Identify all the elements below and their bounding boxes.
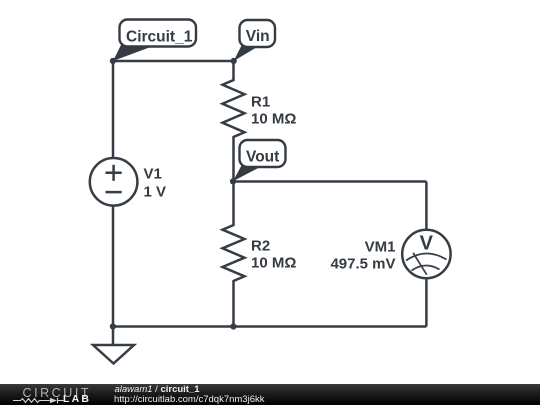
logo CIRCUIT word (23, 387, 92, 400)
wire left branch lower (112, 206, 115, 327)
node Circuit_1 callout (113, 20, 196, 62)
junction bottom-middle (230, 323, 236, 329)
svg-text:Circuit_1: Circuit_1 (126, 29, 193, 46)
footer text line 2 (114, 395, 264, 405)
wire right branch lower (425, 278, 428, 326)
junction node Vout (230, 178, 236, 184)
junction node Vin (231, 58, 237, 64)
node Vin callout (234, 20, 275, 61)
wire top rail (113, 60, 234, 63)
wire ground stub (112, 327, 115, 346)
wire Vout rail (234, 180, 427, 183)
svg-text:R1: R1 (251, 94, 270, 111)
ground (93, 345, 134, 364)
svg-text:497.5 mV: 497.5 mV (330, 256, 395, 273)
logo LAB word (63, 394, 91, 405)
svg-text:VM1: VM1 (365, 239, 396, 256)
junction node A top-left (110, 58, 116, 64)
svg-text:V1: V1 (144, 166, 162, 183)
wire right branch upper (425, 182, 428, 231)
wire bottom rail (113, 325, 426, 328)
voltmeter VM1 (402, 230, 450, 278)
svg-text:1 V: 1 V (144, 184, 167, 201)
footer bar (0, 384, 540, 405)
resistor R1 (223, 61, 245, 182)
logo resistor-diode glyph (13, 397, 64, 404)
voltage source V1 (90, 158, 138, 206)
resistor R2 (223, 182, 245, 327)
node Vout callout (233, 140, 286, 181)
svg-text:Vin: Vin (246, 28, 270, 45)
footer text line 1 (115, 385, 200, 395)
svg-text:10 MΩ: 10 MΩ (251, 111, 296, 128)
junction bottom-left (110, 323, 116, 329)
svg-text:Vout: Vout (246, 148, 279, 165)
svg-text:V: V (420, 233, 434, 255)
wire left branch upper (112, 61, 115, 158)
svg-text:10 MΩ: 10 MΩ (251, 255, 296, 272)
svg-text:R2: R2 (251, 238, 270, 255)
